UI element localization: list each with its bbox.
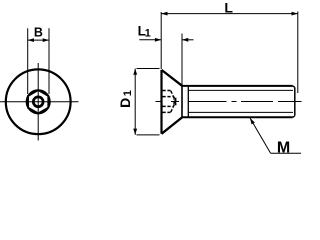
svg-text:M: M — [277, 139, 290, 156]
svg-text:L: L — [224, 0, 233, 16]
svg-text:B: B — [34, 25, 43, 39]
